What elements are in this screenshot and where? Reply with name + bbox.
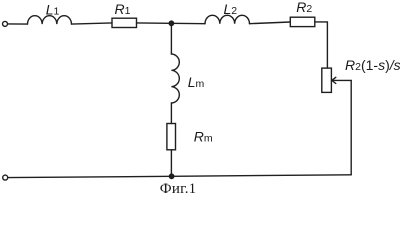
resistor R1: [112, 18, 137, 27]
wire: [170, 26, 172, 55]
resistor Rm: [167, 124, 176, 150]
wire: [170, 150, 172, 177]
wire: [137, 22, 206, 25]
wire: [170, 103, 172, 124]
svg-text:R2: R2: [296, 0, 312, 15]
rheostat R2(1-s)/s: [322, 68, 332, 92]
wire: [315, 22, 328, 68]
inductor L1: [28, 16, 72, 24]
wire: [8, 23, 28, 25]
wire: [250, 22, 291, 24]
wire (bottom rail): [8, 175, 351, 178]
svg-text:Фиг.1: Фиг.1: [160, 181, 197, 197]
inductor L2: [205, 15, 249, 23]
terminal top-left: [3, 21, 8, 26]
wiper arrow: [332, 79, 351, 81]
node B (bottom junction): [169, 174, 173, 178]
wire: [350, 80, 352, 174]
terminal bottom-left: [3, 175, 8, 180]
svg-text:R2(1-s)/s: R2(1-s)/s: [345, 57, 400, 73]
inductor Lm: [171, 54, 179, 103]
node A (top junction): [169, 21, 173, 25]
wire: [72, 23, 113, 24]
resistor R2: [290, 17, 315, 26]
